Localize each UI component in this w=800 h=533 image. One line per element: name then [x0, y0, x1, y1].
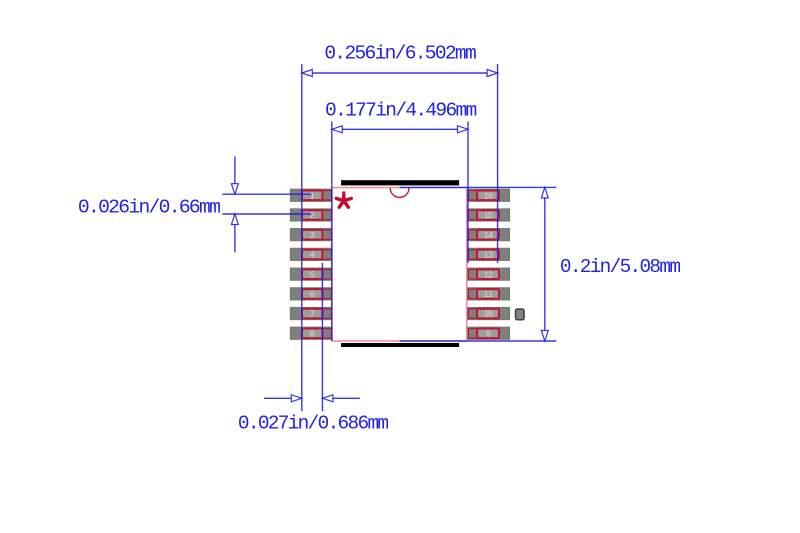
- arrowhead right dim down: [541, 331, 548, 342]
- svg-text:0.177in/4.496mm: 0.177in/4.496mm: [325, 99, 477, 121]
- arrowhead body dim left: [332, 126, 343, 133]
- dimension line 0.256in: [302, 72, 498, 74]
- arrowhead pitch down: [231, 184, 238, 195]
- extension line for lead length dimension: [321, 263, 323, 411]
- pin 2: [290, 209, 331, 221]
- svg-text:0.2in/5.08mm: 0.2in/5.08mm: [560, 256, 680, 278]
- svg-text:1: 1: [309, 191, 314, 201]
- pin 15: [468, 209, 510, 221]
- svg-text:10: 10: [483, 310, 492, 320]
- svg-text:11: 11: [483, 290, 492, 300]
- svg-text:16: 16: [483, 191, 492, 201]
- pin 16: [468, 189, 510, 201]
- top silkscreen bar: [341, 180, 459, 185]
- svg-text:14: 14: [483, 231, 492, 241]
- svg-text:7: 7: [309, 310, 314, 320]
- pin 1: [290, 189, 331, 201]
- fiducial rectangle near pin 10: [516, 309, 525, 320]
- pitch dimension leader to pin 1: [222, 193, 311, 195]
- svg-text:5: 5: [309, 270, 314, 280]
- svg-text:12: 12: [483, 270, 492, 280]
- arrowhead body dim right: [458, 126, 469, 133]
- svg-text:8: 8: [309, 329, 314, 339]
- svg-text:4: 4: [309, 251, 314, 261]
- right dimension extension top: [400, 186, 557, 188]
- dimension line 0.2in vertical: [544, 187, 546, 341]
- pin 14: [468, 229, 510, 241]
- extension line right of top dimension: [497, 64, 499, 263]
- pin-1 marker asterisk: [336, 193, 351, 207]
- extension line left of top dimension: [301, 64, 303, 411]
- svg-text:13: 13: [483, 251, 492, 261]
- pin 6: [290, 288, 331, 300]
- right dimension extension bottom: [400, 340, 557, 342]
- package body outline: [332, 188, 467, 341]
- dimension line 0.177in: [332, 128, 468, 130]
- arrowhead top dim right: [487, 70, 498, 77]
- pin-1 index notch arc: [390, 188, 409, 197]
- svg-text:6: 6: [309, 290, 314, 300]
- svg-text:0.027in/0.686mm: 0.027in/0.686mm: [238, 412, 388, 434]
- bottom silkscreen bar: [341, 343, 459, 347]
- svg-text:0.026in/0.66mm: 0.026in/0.66mm: [78, 197, 220, 219]
- pin 7: [290, 307, 331, 319]
- svg-text:3: 3: [309, 231, 314, 241]
- svg-text:9: 9: [486, 329, 491, 339]
- pin 11: [468, 288, 510, 300]
- pitch dimension vertical line upper: [234, 157, 236, 195]
- arrowhead top dim left: [302, 70, 313, 77]
- arrowhead right dim up: [541, 187, 548, 198]
- pitch dimension leader to pin 2: [222, 213, 311, 215]
- pin 4: [290, 248, 331, 260]
- svg-text:0.256in/6.502mm: 0.256in/6.502mm: [324, 43, 476, 65]
- pin 3: [290, 229, 331, 241]
- arrowhead pitch up: [231, 214, 238, 225]
- svg-text:15: 15: [483, 211, 492, 221]
- extension line right of body dimension: [467, 122, 469, 264]
- pin 10: [468, 307, 510, 319]
- pin 13: [468, 248, 510, 260]
- pin 12: [468, 268, 510, 280]
- pin 8: [290, 327, 331, 339]
- lead length dimension line left: [264, 397, 302, 399]
- lead length dimension line right: [322, 397, 359, 399]
- pitch dimension vertical line lower: [234, 214, 236, 253]
- pin 9: [468, 327, 510, 339]
- svg-text:2: 2: [309, 211, 314, 221]
- arrowhead lead dim pointing right: [291, 395, 302, 402]
- pin 5: [290, 268, 331, 280]
- extension line left of body dimension: [331, 122, 333, 342]
- arrowhead lead dim pointing left: [322, 395, 333, 402]
